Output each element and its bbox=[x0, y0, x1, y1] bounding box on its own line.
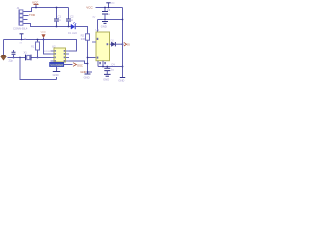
power pin on rail bbox=[106, 2, 114, 8]
ground earth brown bbox=[1, 56, 7, 61]
svg-text:GND: GND bbox=[103, 77, 109, 81]
junction R1 top bbox=[37, 39, 39, 41]
net flag red bbox=[73, 63, 83, 68]
left ground riser bbox=[3, 40, 5, 56]
wire arrow net to U2 pin2 bbox=[44, 40, 55, 55]
junction power stub bbox=[35, 7, 37, 9]
power arrow red on main net bbox=[41, 31, 46, 40]
svg-text:U1: U1 bbox=[96, 28, 100, 32]
junction stub bbox=[87, 71, 89, 73]
svg-text:C3: C3 bbox=[107, 8, 111, 12]
svg-text:C4: C4 bbox=[111, 62, 115, 66]
U2 pin numbers bbox=[55, 50, 65, 62]
junction arrow bbox=[43, 39, 45, 41]
svg-text:VCC: VCC bbox=[86, 5, 93, 9]
svg-text:OU: OU bbox=[127, 43, 130, 47]
capacitor C2 bbox=[66, 8, 71, 27]
ground under blue box bbox=[53, 67, 61, 80]
svg-text:C1: C1 bbox=[58, 15, 62, 19]
branch to U1 pin bbox=[88, 57, 97, 59]
svg-text:GND: GND bbox=[118, 79, 124, 82]
wire to LED bbox=[69, 26, 73, 28]
capacitor C1 bbox=[54, 8, 59, 27]
LED D1 blue bbox=[71, 22, 76, 29]
capacitor C6 left bbox=[9, 50, 16, 63]
stub right at y72 bbox=[88, 71, 93, 73]
svg-text:GND: GND bbox=[101, 25, 107, 29]
IC U1 bbox=[92, 32, 110, 67]
wire pin1 to VCC rail bbox=[24, 8, 32, 12]
svg-text:R2: R2 bbox=[81, 34, 85, 38]
wire pin3 stub bbox=[24, 19, 28, 21]
capacitor C3 bbox=[102, 8, 108, 20]
svg-text:SOUNDER: SOUNDER bbox=[50, 63, 63, 67]
wire into U1 top bbox=[97, 20, 99, 33]
junction C3 bottom bbox=[104, 19, 106, 21]
svg-text:330: 330 bbox=[81, 37, 86, 41]
main net wire bbox=[4, 40, 77, 52]
svg-text:J1: J1 bbox=[17, 6, 20, 10]
svg-text:GND: GND bbox=[53, 73, 59, 77]
U1 bottom net wire bbox=[98, 66, 123, 68]
svg-text:U2: U2 bbox=[52, 44, 56, 48]
svg-text:D1 LED: D1 LED bbox=[68, 31, 77, 35]
svg-text:GND: GND bbox=[84, 76, 90, 80]
junction R1 bottom bbox=[37, 57, 39, 59]
wire pin2 stub bbox=[24, 15, 29, 17]
junction rail C3 bbox=[104, 7, 106, 9]
junction U1 pin bottom bbox=[102, 66, 104, 68]
svg-text:VD: VD bbox=[111, 2, 115, 5]
junction loop left bbox=[19, 57, 21, 59]
svg-text:GND: GND bbox=[80, 70, 86, 74]
svg-text:xxxxx: xxxxx bbox=[44, 50, 51, 53]
VCC rail right bbox=[96, 7, 123, 9]
junction branch bbox=[87, 57, 89, 59]
svg-text:1n: 1n bbox=[70, 18, 73, 22]
wire LED to R2 bbox=[75, 27, 87, 34]
svg-text:1n: 1n bbox=[58, 18, 61, 22]
junction C6 bbox=[13, 57, 15, 59]
diode D2 bbox=[110, 40, 123, 47]
blue net label box bbox=[50, 62, 64, 67]
svg-text:22p: 22p bbox=[9, 59, 14, 63]
resistor R2 bbox=[86, 34, 90, 40]
capacitor C4 bbox=[104, 67, 110, 75]
connector J1 bbox=[19, 10, 24, 26]
wire U2 pin4 right bbox=[69, 61, 88, 64]
junction diode bbox=[122, 43, 124, 45]
ground symbol mid bbox=[84, 74, 91, 80]
ground loop wire bbox=[20, 58, 57, 80]
svg-text:VCC: VCC bbox=[32, 0, 39, 4]
ground under C4 bbox=[103, 74, 110, 81]
ground bottom right bbox=[118, 78, 125, 83]
svg-text:OSC: OSC bbox=[77, 63, 83, 67]
svg-text:3V: 3V bbox=[92, 16, 95, 19]
junction tp bbox=[21, 39, 23, 41]
net flag right edge red bbox=[124, 42, 131, 46]
svg-text:R1: R1 bbox=[31, 45, 35, 49]
ground under C3 bbox=[101, 22, 108, 29]
wire R2 down to ground bbox=[87, 40, 89, 74]
power flag VCC top-left bbox=[32, 0, 39, 7]
junction rail C1 bbox=[56, 7, 58, 9]
svg-text:C2: C2 bbox=[70, 15, 74, 19]
junction at y19 bbox=[122, 19, 124, 21]
svg-text:CONN-SIL4: CONN-SIL4 bbox=[13, 26, 28, 30]
wire U2 pin1 right bbox=[69, 50, 77, 52]
svg-text:VDD: VDD bbox=[41, 31, 46, 34]
wire under C3 bbox=[98, 19, 123, 21]
VCC right vertical bbox=[122, 8, 124, 78]
wire pin4 to gnd net bbox=[24, 24, 69, 27]
junction C2 bottom bbox=[68, 26, 70, 28]
test point symbol bbox=[20, 34, 27, 45]
crystal net wire bbox=[8, 57, 55, 59]
IC U2 bbox=[51, 48, 70, 62]
U1 pin numbers bbox=[97, 38, 109, 64]
junction pin4 net bbox=[87, 63, 89, 65]
junction at y66 bbox=[122, 66, 124, 68]
svg-text:X1: X1 bbox=[24, 51, 28, 55]
resistor R1 bbox=[36, 40, 40, 58]
junction C1 bottom bbox=[56, 26, 58, 28]
crystal X1 bbox=[26, 55, 32, 61]
junction C4 top bbox=[106, 66, 108, 68]
svg-text:TXD: TXD bbox=[29, 13, 36, 17]
VCC rail left bbox=[32, 7, 69, 9]
wire blue box to flag bbox=[64, 64, 73, 66]
